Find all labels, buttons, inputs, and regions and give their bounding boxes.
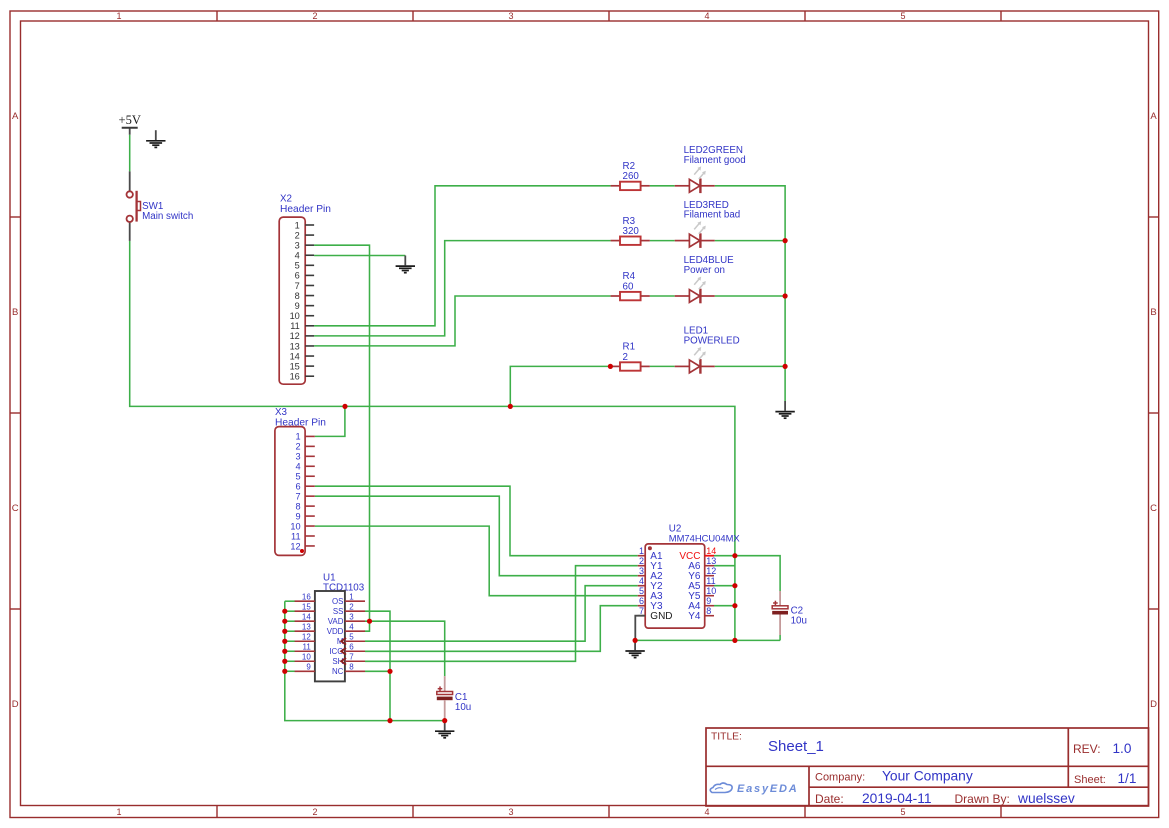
- svg-text:D: D: [1150, 699, 1157, 710]
- svg-text:EasyEDA: EasyEDA: [737, 783, 799, 795]
- svg-text:16: 16: [290, 372, 300, 382]
- svg-text:Y4: Y4: [688, 611, 701, 622]
- svg-text:11: 11: [291, 531, 301, 541]
- svg-text:1: 1: [295, 432, 300, 442]
- svg-text:1: 1: [116, 807, 121, 817]
- svg-text:5: 5: [295, 472, 300, 482]
- svg-text:4: 4: [295, 462, 300, 472]
- svg-text:8: 8: [706, 606, 711, 616]
- svg-text:13: 13: [706, 556, 716, 566]
- svg-text:2: 2: [295, 442, 300, 452]
- svg-text:Main switch: Main switch: [142, 211, 193, 222]
- svg-text:4: 4: [295, 251, 300, 261]
- svg-text:14: 14: [302, 612, 311, 621]
- svg-text:13: 13: [290, 341, 300, 351]
- svg-text:C: C: [1150, 503, 1157, 514]
- svg-text:+5V: +5V: [119, 113, 141, 127]
- svg-text:2: 2: [639, 556, 644, 566]
- svg-text:9: 9: [306, 662, 311, 671]
- svg-text:9: 9: [706, 596, 711, 606]
- svg-text:Drawn By:: Drawn By:: [955, 792, 1010, 806]
- svg-text:4: 4: [349, 622, 354, 631]
- svg-text:9: 9: [295, 511, 300, 521]
- svg-text:VAD: VAD: [328, 617, 344, 626]
- svg-text:12: 12: [302, 632, 311, 641]
- svg-text:GND: GND: [650, 611, 672, 622]
- svg-text:1: 1: [639, 546, 644, 556]
- svg-text:wuelssev: wuelssev: [1017, 791, 1075, 806]
- svg-text:Sheet_1: Sheet_1: [768, 738, 824, 755]
- svg-text:2019-04-11: 2019-04-11: [862, 791, 932, 806]
- svg-text:5: 5: [900, 807, 905, 817]
- svg-text:A: A: [12, 111, 19, 122]
- svg-text:NC: NC: [332, 667, 344, 676]
- svg-text:3: 3: [295, 240, 300, 250]
- svg-text:60: 60: [623, 281, 634, 292]
- svg-text:POWERLED: POWERLED: [684, 335, 740, 346]
- svg-text:320: 320: [623, 226, 640, 237]
- svg-text:12: 12: [290, 541, 300, 551]
- svg-text:5: 5: [349, 632, 354, 641]
- svg-text:11: 11: [290, 321, 300, 331]
- svg-text:8: 8: [349, 662, 354, 671]
- svg-text:3: 3: [508, 11, 513, 21]
- svg-text:13: 13: [302, 622, 311, 631]
- svg-text:C: C: [12, 503, 19, 514]
- svg-text:SW1: SW1: [142, 201, 163, 212]
- svg-text:5: 5: [639, 586, 644, 596]
- svg-text:12: 12: [290, 331, 300, 341]
- svg-text:4: 4: [704, 11, 709, 21]
- svg-text:7: 7: [349, 652, 354, 661]
- svg-text:SS: SS: [333, 607, 344, 616]
- svg-text:B: B: [12, 307, 18, 318]
- svg-text:10: 10: [302, 652, 311, 661]
- svg-text:Your Company: Your Company: [882, 769, 973, 784]
- svg-text:2: 2: [312, 807, 317, 817]
- svg-text:OS: OS: [332, 597, 343, 606]
- svg-text:16: 16: [302, 592, 311, 601]
- svg-text:260: 260: [623, 171, 640, 182]
- svg-text:10: 10: [290, 311, 300, 321]
- svg-text:1.0: 1.0: [1113, 741, 1132, 756]
- svg-text:2: 2: [295, 230, 300, 240]
- svg-text:TITLE:: TITLE:: [711, 731, 742, 742]
- svg-text:10: 10: [290, 521, 300, 531]
- svg-text:REV:: REV:: [1073, 742, 1101, 756]
- svg-text:Date:: Date:: [815, 792, 844, 806]
- svg-text:1/1: 1/1: [1118, 771, 1137, 786]
- svg-text:1: 1: [295, 220, 300, 230]
- svg-text:2: 2: [312, 11, 317, 21]
- svg-text:15: 15: [302, 602, 311, 611]
- svg-text:3: 3: [295, 452, 300, 462]
- svg-text:A: A: [1150, 111, 1157, 122]
- svg-text:7: 7: [295, 281, 300, 291]
- svg-text:8: 8: [295, 501, 300, 511]
- svg-text:2: 2: [349, 602, 354, 611]
- svg-text:5: 5: [295, 261, 300, 271]
- svg-text:14: 14: [290, 351, 300, 361]
- svg-text:3: 3: [639, 566, 644, 576]
- svg-text:11: 11: [302, 642, 311, 651]
- svg-text:7: 7: [295, 491, 300, 501]
- svg-text:1: 1: [349, 592, 354, 601]
- svg-text:3: 3: [349, 612, 354, 621]
- svg-text:4: 4: [639, 576, 644, 586]
- svg-text:10: 10: [706, 586, 716, 596]
- svg-text:B: B: [1150, 307, 1156, 318]
- svg-text:15: 15: [290, 361, 300, 371]
- svg-text:VDD: VDD: [327, 627, 344, 636]
- svg-text:8: 8: [295, 291, 300, 301]
- svg-text:5: 5: [900, 11, 905, 21]
- svg-text:Filament good: Filament good: [684, 155, 746, 166]
- svg-text:Header Pin: Header Pin: [280, 204, 331, 215]
- svg-text:10u: 10u: [455, 702, 471, 713]
- svg-text:Power on: Power on: [684, 265, 725, 276]
- svg-text:7: 7: [639, 606, 644, 616]
- svg-text:10u: 10u: [791, 615, 807, 626]
- svg-text:D: D: [12, 699, 19, 710]
- svg-text:2: 2: [623, 352, 628, 363]
- svg-text:4: 4: [704, 807, 709, 817]
- svg-text:6: 6: [295, 271, 300, 281]
- svg-text:Sheet:: Sheet:: [1074, 774, 1106, 786]
- svg-text:Filament bad: Filament bad: [684, 210, 741, 221]
- svg-text:1: 1: [116, 11, 121, 21]
- svg-text:11: 11: [706, 576, 715, 586]
- svg-text:12: 12: [706, 566, 716, 576]
- svg-text:3: 3: [508, 807, 513, 817]
- svg-text:9: 9: [295, 301, 300, 311]
- svg-text:Company:: Company:: [815, 771, 865, 783]
- svg-text:MM74HCU04MX: MM74HCU04MX: [669, 532, 741, 543]
- svg-text:14: 14: [706, 546, 716, 556]
- svg-text:6: 6: [639, 596, 644, 606]
- svg-text:6: 6: [295, 482, 300, 492]
- svg-text:6: 6: [349, 642, 354, 651]
